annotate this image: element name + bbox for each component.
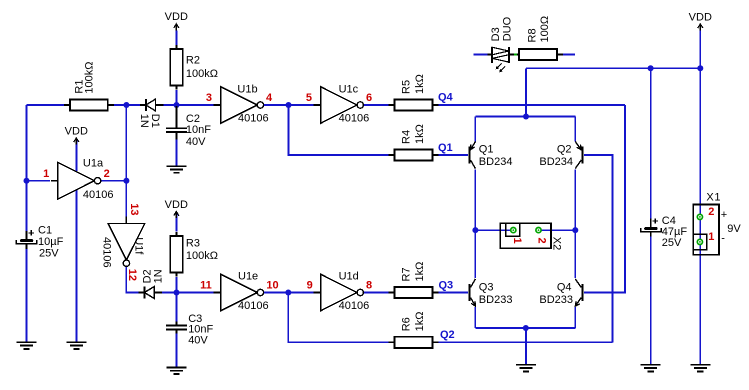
- resistor R2: [170, 45, 183, 90]
- wire left rail down to C1: [26, 105, 28, 231]
- X2 pin 1 circle: [511, 228, 516, 233]
- svg-text:2: 2: [104, 168, 110, 180]
- op-amp U1d inverter: [314, 274, 364, 311]
- svg-text:U1b: U1b: [237, 84, 257, 96]
- svg-text:Q2: Q2: [440, 329, 455, 341]
- connector X2: [500, 223, 551, 248]
- junction bottom rail ground: [523, 325, 529, 331]
- wire Q4 emitter to bottom rail: [574, 307, 576, 328]
- svg-text:C1: C1: [38, 225, 52, 237]
- wire bridge top rail: [475, 116, 575, 118]
- junction VDD rail C4: [648, 65, 654, 71]
- svg-text:R5: R5: [401, 80, 413, 94]
- power VDD at U1a pin14: [65, 125, 88, 144]
- resistor R1: [64, 99, 114, 110]
- junction VDD rail X1: [697, 65, 703, 71]
- svg-text:100kΩ: 100kΩ: [186, 250, 218, 262]
- capacitor C4 polarized: [641, 218, 662, 236]
- wire D2 to node and U1e pin11: [162, 292, 214, 294]
- wire Q3 emitter to bottom rail: [474, 307, 476, 328]
- wire R4 to Q1 base: [438, 154, 468, 156]
- svg-text:1kΩ: 1kΩ: [414, 124, 426, 144]
- svg-text:8: 8: [366, 280, 372, 292]
- svg-text:1: 1: [511, 238, 523, 244]
- diode D2: [138, 287, 162, 299]
- svg-text:-: -: [721, 233, 725, 245]
- transistor Q1: [468, 142, 475, 169]
- junction bridge top rail: [523, 114, 529, 120]
- wire node to U1a pin1: [27, 180, 51, 182]
- power VDD above R2: [165, 11, 188, 30]
- svg-text:R4: R4: [401, 130, 413, 144]
- wire U1e out to U1d in: [264, 292, 314, 294]
- svg-text:10: 10: [266, 280, 278, 292]
- svg-text:R6: R6: [401, 317, 413, 331]
- svg-text:U1e: U1e: [238, 270, 258, 282]
- wire VDD rail: [526, 67, 700, 69]
- wire top rail to Q1 emitter: [474, 117, 476, 142]
- pin join D3-R8: [514, 53, 517, 55]
- junction U1a pin1: [24, 178, 30, 184]
- junction U1b out: [286, 102, 292, 108]
- svg-text:VDD: VDD: [165, 199, 188, 211]
- svg-text:U1d: U1d: [339, 270, 359, 282]
- wire U1a out: [102, 180, 127, 182]
- svg-text:1: 1: [708, 231, 714, 243]
- svg-text:C2: C2: [186, 113, 200, 125]
- ground below C1: [17, 342, 37, 349]
- svg-text:R3: R3: [186, 238, 200, 250]
- junction R2/D1/C2/U1b: [174, 102, 180, 108]
- svg-text:13: 13: [128, 203, 140, 215]
- svg-text:D3: D3: [490, 27, 502, 41]
- wire C4 to ground: [650, 236, 652, 365]
- junction U1a out: [123, 178, 129, 184]
- svg-text:25V: 25V: [39, 248, 59, 260]
- op-amp U1b inverter: [214, 87, 264, 124]
- wire node to C3: [176, 293, 178, 322]
- wire Q4 net riser to Q4 base: [584, 105, 625, 293]
- wire C2 to ground: [176, 139, 178, 165]
- svg-text:Q3: Q3: [439, 279, 454, 291]
- wire node down to R4: [289, 105, 389, 155]
- svg-text:3: 3: [206, 92, 212, 104]
- wire R2 to node/C2: [176, 90, 178, 123]
- svg-text:R8: R8: [527, 28, 539, 42]
- wire U1a VDD pin: [76, 139, 78, 171]
- capacitor C2: [166, 106, 187, 139]
- resistor R4: [389, 149, 439, 160]
- wire C3 to ground: [176, 333, 178, 367]
- ground below X1: [690, 365, 710, 372]
- wire VDD rail to C4: [650, 68, 652, 218]
- svg-text:100kΩ: 100kΩ: [186, 68, 218, 80]
- svg-text:VDD: VDD: [65, 125, 88, 137]
- X2 pin 2 circle: [536, 228, 541, 233]
- wire VDD to R2: [176, 30, 178, 45]
- svg-text:10µF: 10µF: [38, 236, 64, 248]
- svg-text:1N: 1N: [138, 114, 150, 128]
- capacitor C3: [166, 322, 187, 334]
- wire node down to U1f pin13: [125, 181, 127, 217]
- svg-text:Q4: Q4: [438, 91, 454, 103]
- resistor R7: [389, 287, 439, 298]
- junction R3/D2/C3/U1e: [174, 290, 180, 296]
- svg-text:+: +: [721, 209, 727, 221]
- capacitor C1 polarized: [16, 230, 37, 249]
- X1 pin 2 circle: [697, 214, 702, 219]
- svg-text:X2: X2: [550, 237, 562, 250]
- wire feedback riser: [125, 105, 127, 181]
- ground below C2: [167, 166, 187, 173]
- svg-text:100Ω: 100Ω: [539, 16, 551, 43]
- svg-text:40V: 40V: [186, 136, 206, 148]
- svg-text:Q2: Q2: [557, 144, 572, 156]
- svg-text:9V: 9V: [727, 223, 741, 235]
- svg-text:BD234: BD234: [479, 156, 513, 168]
- wire R1 to node: [114, 104, 126, 106]
- transistor Q2: [575, 142, 583, 169]
- wire R6/Q2 net: [438, 341, 612, 343]
- svg-text:40106: 40106: [83, 189, 114, 201]
- ground below C4: [641, 365, 661, 372]
- resistor R8: [513, 49, 563, 60]
- ground bridge: [516, 365, 536, 372]
- svg-text:12: 12: [126, 269, 138, 281]
- svg-text:DUO: DUO: [502, 16, 514, 41]
- wire bridge bottom rail: [475, 327, 575, 329]
- junction R1/D1/feedback: [123, 102, 129, 108]
- wire VDD rail riser to bridge: [525, 68, 527, 116]
- wire R5/Q4 net to riser: [438, 104, 625, 106]
- svg-text:2: 2: [536, 238, 548, 244]
- svg-text:1: 1: [43, 168, 49, 180]
- wire stub to D3: [474, 54, 488, 56]
- svg-text:5: 5: [306, 92, 312, 104]
- svg-text:25V: 25V: [662, 237, 682, 249]
- wire Q2 collector to Q4 collector: [574, 169, 576, 278]
- op-amp U1a inverter: [51, 162, 101, 199]
- svg-text:X1: X1: [706, 192, 721, 204]
- transistor Q3: [468, 279, 475, 306]
- svg-text:Q4: Q4: [557, 282, 572, 294]
- svg-text:BD234: BD234: [539, 156, 573, 168]
- svg-text:Q1: Q1: [438, 142, 453, 154]
- junction right rail X2: [572, 227, 578, 233]
- op-amp U1f inverter pointing down: [108, 217, 145, 267]
- svg-text:D1: D1: [149, 114, 161, 128]
- wire X2 pin2 to right rail: [539, 229, 576, 231]
- wire R3 to node: [176, 277, 178, 293]
- svg-text:U1c: U1c: [339, 84, 359, 96]
- wire U1c out to R5: [364, 104, 389, 106]
- junction left rail X2: [472, 227, 478, 233]
- transistor Q4: [575, 279, 583, 306]
- wire U1f out to D2: [126, 267, 138, 292]
- junction U1e out: [285, 290, 291, 296]
- wire U1a GND pin to ground: [76, 190, 78, 342]
- wire rail to X1 and ground: [699, 68, 701, 365]
- wire Q2 net riser to Q2 base: [584, 155, 613, 342]
- resistor R6: [389, 337, 439, 348]
- svg-text:U1f: U1f: [133, 237, 145, 255]
- wire VDD to rail: [699, 28, 701, 68]
- svg-text:9: 9: [307, 280, 313, 292]
- power VDD above R3: [165, 199, 188, 218]
- svg-text:2: 2: [708, 206, 714, 218]
- wire stub from R8: [563, 54, 575, 56]
- wire bottom rail to ground: [525, 328, 527, 365]
- connector X1: [693, 205, 719, 255]
- diode D1: [140, 99, 164, 111]
- resistor R3: [170, 232, 183, 277]
- resistor R5: [389, 99, 439, 110]
- svg-text:40106: 40106: [339, 113, 370, 125]
- svg-text:11: 11: [200, 280, 212, 292]
- svg-text:1kΩ: 1kΩ: [414, 262, 426, 282]
- svg-text:Q3: Q3: [479, 282, 494, 294]
- op-amp U1c inverter: [314, 87, 364, 124]
- svg-text:10nF: 10nF: [186, 124, 211, 136]
- power VDD top right: [689, 11, 712, 30]
- wire VDD to R3: [176, 212, 178, 232]
- svg-text:40106: 40106: [339, 300, 370, 312]
- wire top rail to Q2 emitter: [574, 117, 576, 142]
- wire node to D1: [126, 104, 139, 106]
- wire U1b out to U1c in: [264, 104, 314, 106]
- svg-text:40106: 40106: [238, 113, 269, 125]
- svg-text:U1a: U1a: [83, 157, 104, 169]
- svg-text:6: 6: [366, 92, 372, 104]
- svg-text:40106: 40106: [101, 237, 113, 268]
- ground below C3: [167, 367, 187, 374]
- svg-text:100kΩ: 100kΩ: [84, 62, 96, 94]
- wire D1 to node R2/C2 and U1b pin3: [163, 104, 214, 106]
- svg-text:40106: 40106: [238, 300, 269, 312]
- svg-text:40V: 40V: [188, 334, 208, 346]
- wire U1d out to R7: [364, 292, 389, 294]
- svg-text:1kΩ: 1kΩ: [414, 311, 426, 331]
- svg-text:BD233: BD233: [539, 294, 573, 306]
- svg-text:VDD: VDD: [165, 11, 188, 23]
- op-amp U1e inverter: [214, 274, 264, 311]
- svg-text:4: 4: [266, 92, 273, 104]
- svg-text:R7: R7: [401, 267, 413, 281]
- wire Q1 collector to Q3 collector: [474, 169, 476, 278]
- wire left rail to R1: [27, 104, 65, 106]
- ground U1a pin7: [67, 342, 87, 349]
- X1 pin 1 circle: [697, 239, 702, 244]
- svg-text:Q1: Q1: [479, 144, 494, 156]
- svg-text:1kΩ: 1kΩ: [414, 74, 426, 94]
- svg-text:R2: R2: [186, 54, 200, 66]
- wire C1 to ground: [26, 249, 28, 343]
- wire node down to R6: [288, 293, 388, 343]
- svg-text:VDD: VDD: [689, 11, 712, 23]
- svg-text:BD233: BD233: [479, 294, 513, 306]
- LED D3 dual: [487, 47, 513, 72]
- wire left rail to X2 pin1: [475, 229, 513, 231]
- wire R7 to Q3 base: [438, 292, 468, 294]
- svg-text:1N: 1N: [153, 269, 165, 283]
